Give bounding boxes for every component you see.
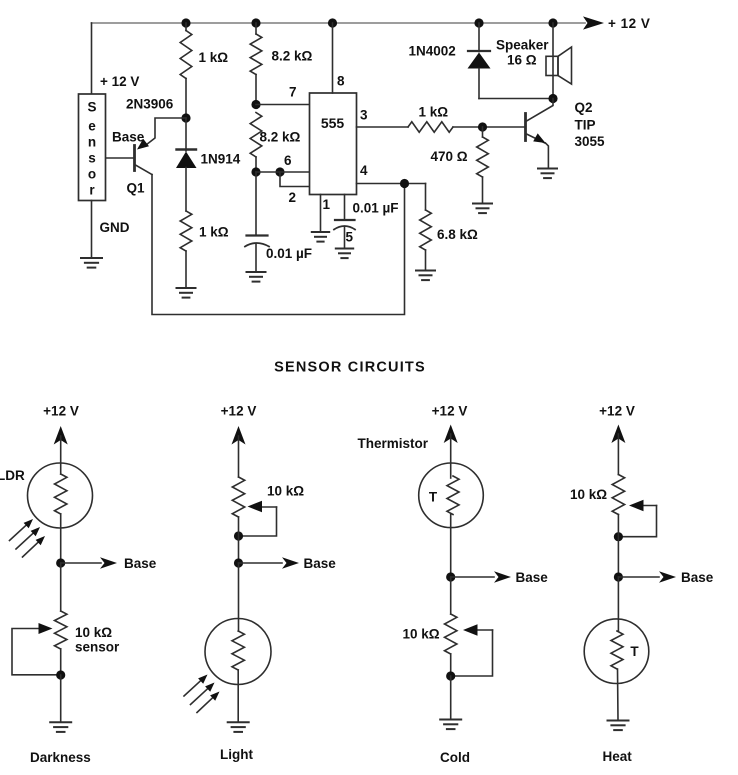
pin label 6 [284, 153, 292, 168]
resistor R 8.2k bottom [250, 113, 300, 173]
wire col4 [617, 515, 619, 578]
pin label 8 [337, 74, 345, 89]
svg-text:1 kΩ: 1 kΩ [199, 225, 229, 240]
ground col4 [608, 721, 629, 731]
node base col2 [234, 558, 243, 567]
svg-text:Q1: Q1 [127, 181, 146, 196]
ground (sensor) [81, 258, 102, 268]
pin label 7 [289, 85, 297, 100]
svg-text:T: T [429, 490, 438, 505]
svg-text:sensor: sensor [75, 640, 120, 655]
supply arrow col2 [232, 426, 246, 477]
wire rail to sensor [91, 23, 93, 94]
node: rail junction dots [181, 18, 557, 27]
node base col1 [56, 558, 65, 567]
ground (470) [473, 204, 492, 214]
svg-text:LDR: LDR [0, 468, 25, 483]
svg-text:r: r [89, 183, 95, 198]
resistor R 470 [431, 127, 489, 203]
svg-text:16 Ω: 16 Ω [507, 53, 537, 68]
svg-text:1 kΩ: 1 kΩ [419, 105, 449, 120]
label 1 kOhm (pin3) [419, 105, 449, 120]
wire pin 2 [280, 172, 310, 187]
svg-text:2: 2 [289, 190, 297, 205]
svg-text:555: 555 [321, 115, 345, 131]
+12V rail [92, 16, 651, 31]
label 10k col3 [403, 627, 440, 642]
pin label 5 [346, 230, 354, 245]
wire diode to collector node [479, 98, 553, 100]
svg-text:3055: 3055 [575, 134, 606, 149]
svg-text:e: e [88, 119, 96, 134]
ground col2 [228, 722, 249, 732]
speaker [546, 23, 572, 99]
label Q2 TIP 3055 [575, 100, 606, 149]
wire pin 4 [357, 184, 426, 211]
wire to ground col3 [450, 676, 452, 719]
label 10k sensor [75, 625, 120, 655]
svg-text:Base: Base [681, 570, 714, 585]
svg-text:0.01 µF: 0.01 µF [266, 246, 312, 261]
supply arrow col3 [444, 425, 458, 479]
ground (1k) [177, 288, 196, 298]
svg-text:1N914: 1N914 [201, 152, 241, 167]
node pot col1 [56, 670, 65, 679]
node base col4 [614, 572, 623, 581]
node pot col3 [446, 671, 455, 680]
base arrow col1 [61, 556, 157, 571]
svg-text:Thermistor: Thermistor [358, 436, 429, 451]
svg-text:+ 12 V: + 12 V [608, 16, 650, 31]
ground (Q2 emitter) [538, 169, 557, 179]
svg-text:+12 V: +12 V [43, 404, 79, 419]
label 10k col2 [267, 484, 304, 499]
label Darkness [30, 750, 91, 765]
svg-text:7: 7 [289, 85, 297, 100]
svg-text:Heat: Heat [603, 749, 633, 764]
base arrow col3 [451, 570, 549, 585]
label 2N3906 [126, 97, 174, 112]
svg-text:s: s [88, 151, 96, 166]
node pin4 junction [400, 179, 409, 188]
op IC U1 555 [310, 93, 357, 195]
svg-text:1: 1 [323, 197, 331, 212]
svg-text:1N4002: 1N4002 [409, 44, 456, 59]
label +12V col2 [221, 404, 257, 419]
ground (6.8k) [416, 271, 435, 281]
svg-text:S: S [87, 100, 96, 115]
node pot col4 [614, 532, 623, 541]
transistor Q1 2N3906 [106, 146, 152, 175]
svg-text:+12 V: +12 V [221, 404, 257, 419]
svg-text:10 kΩ: 10 kΩ [267, 484, 304, 499]
resistor R 8.2k top [250, 23, 312, 105]
GND wire [91, 201, 93, 258]
wire pin 3 run [357, 122, 526, 132]
node base col3 [446, 572, 455, 581]
node Q2 collector junction [548, 94, 557, 103]
pot 10k col2 [232, 477, 276, 536]
svg-text:8: 8 [337, 74, 345, 89]
node Q1 base / diode junction [181, 113, 190, 122]
svg-text:+12 V: +12 V [432, 404, 468, 419]
pot 10k col4 [612, 475, 656, 537]
pin label 1 [323, 197, 331, 212]
wire Q1 collector to pin4 (long bottom wire) [152, 175, 405, 315]
diode D 1N4002 [409, 23, 491, 99]
pin label 4 [360, 163, 368, 178]
capacitor C 0.01uF (pin 5) [334, 195, 399, 249]
svg-text:+12 V: +12 V [599, 404, 635, 419]
label Q1 [127, 181, 146, 196]
resistor R 6.8k [420, 210, 478, 270]
base arrow col2 [239, 556, 337, 571]
svg-text:T: T [630, 644, 639, 659]
supply arrow col1 [54, 426, 68, 474]
title SENSOR CIRCUITS [274, 360, 426, 376]
label Cold [440, 750, 470, 765]
node pot col2 [234, 531, 243, 540]
svg-text:Darkness: Darkness [30, 750, 91, 765]
ground (cap) [247, 272, 266, 282]
svg-text:2N3906: 2N3906 [126, 97, 174, 112]
svg-text:0.01 µF: 0.01 µF [353, 201, 399, 216]
svg-text:Cold: Cold [440, 750, 470, 765]
svg-text:8.2 kΩ: 8.2 kΩ [260, 130, 301, 145]
ground (pin1) [312, 232, 329, 242]
resistor R 1k top [180, 23, 228, 118]
resistor R 1k bottom [180, 211, 229, 288]
label +12V col4 [599, 404, 635, 419]
svg-text:Base: Base [304, 556, 337, 571]
svg-text:Base: Base [112, 130, 145, 145]
label Heat [603, 749, 633, 764]
svg-text:10 kΩ: 10 kΩ [75, 625, 112, 640]
label Speaker 16ohm [496, 38, 549, 68]
pin label 2 [289, 190, 297, 205]
svg-text:4: 4 [360, 163, 368, 178]
light arrows col1 [10, 519, 46, 557]
svg-text:Q2: Q2 [575, 100, 593, 115]
wire to ground col1 [60, 675, 62, 722]
svg-text:8.2 kΩ: 8.2 kΩ [272, 49, 313, 64]
svg-text:10 kΩ: 10 kΩ [570, 487, 607, 502]
svg-text:Light: Light [220, 747, 253, 762]
pot 10k sensor col1 [12, 563, 67, 675]
svg-text:470 Ω: 470 Ω [431, 149, 468, 164]
wire to Q1 emitter with arrow (PNP) [137, 118, 186, 150]
wire pin 7 [256, 104, 310, 106]
svg-text:o: o [88, 167, 96, 182]
label 10k col4 [570, 487, 607, 502]
ground col3 [440, 720, 461, 730]
label GND [100, 220, 130, 235]
svg-text:+ 12 V: + 12 V [100, 74, 139, 89]
label +12V col3 [432, 404, 468, 419]
light arrows col2 [184, 675, 220, 713]
sensor box [79, 94, 106, 201]
svg-text:1 kΩ: 1 kΩ [199, 50, 229, 65]
node Q2 base junction [478, 122, 487, 131]
ground (pin5) [336, 249, 353, 259]
svg-text:SENSOR CIRCUITS: SENSOR CIRCUITS [274, 360, 426, 376]
svg-text:GND: GND [100, 220, 130, 235]
node pin7 junction [251, 100, 260, 109]
svg-text:Base: Base [516, 570, 549, 585]
supply arrow col4 [611, 425, 625, 475]
transistor Q2 TIP3055 [526, 99, 554, 169]
wire pin 6 [256, 171, 310, 173]
label +12V col1 [43, 404, 79, 419]
pot 10k col3 [445, 577, 493, 676]
svg-text:n: n [88, 135, 96, 150]
wire pin 1 [320, 195, 322, 232]
svg-text:5: 5 [346, 230, 354, 245]
label Base [112, 130, 145, 145]
thermistor circle col3 [419, 463, 484, 577]
photocell circle col2 [205, 563, 271, 722]
svg-text:Base: Base [124, 556, 157, 571]
wire pin 8 [332, 23, 334, 93]
svg-text:3: 3 [360, 108, 368, 123]
base arrow col4 [618, 570, 713, 585]
svg-text:Speaker: Speaker [496, 38, 549, 53]
svg-text:6: 6 [284, 153, 292, 168]
thermistor circle col4 [584, 577, 649, 720]
node pin6/2 junctions [251, 167, 284, 176]
diode D 1N914 [176, 118, 241, 211]
LDR circle [28, 463, 93, 563]
wire col2 [238, 517, 240, 563]
label +12V near sensor [100, 74, 139, 89]
capacitor C 0.01uF (pin 2/6) [245, 172, 312, 272]
ground col1 [50, 722, 71, 732]
svg-text:6.8 kΩ: 6.8 kΩ [437, 227, 478, 242]
svg-text:10 kΩ: 10 kΩ [403, 627, 440, 642]
label LDR [0, 468, 25, 483]
label Light [220, 747, 253, 762]
label Thermistor [358, 436, 429, 451]
svg-text:TIP: TIP [575, 118, 596, 133]
pin label 3 [360, 108, 368, 123]
